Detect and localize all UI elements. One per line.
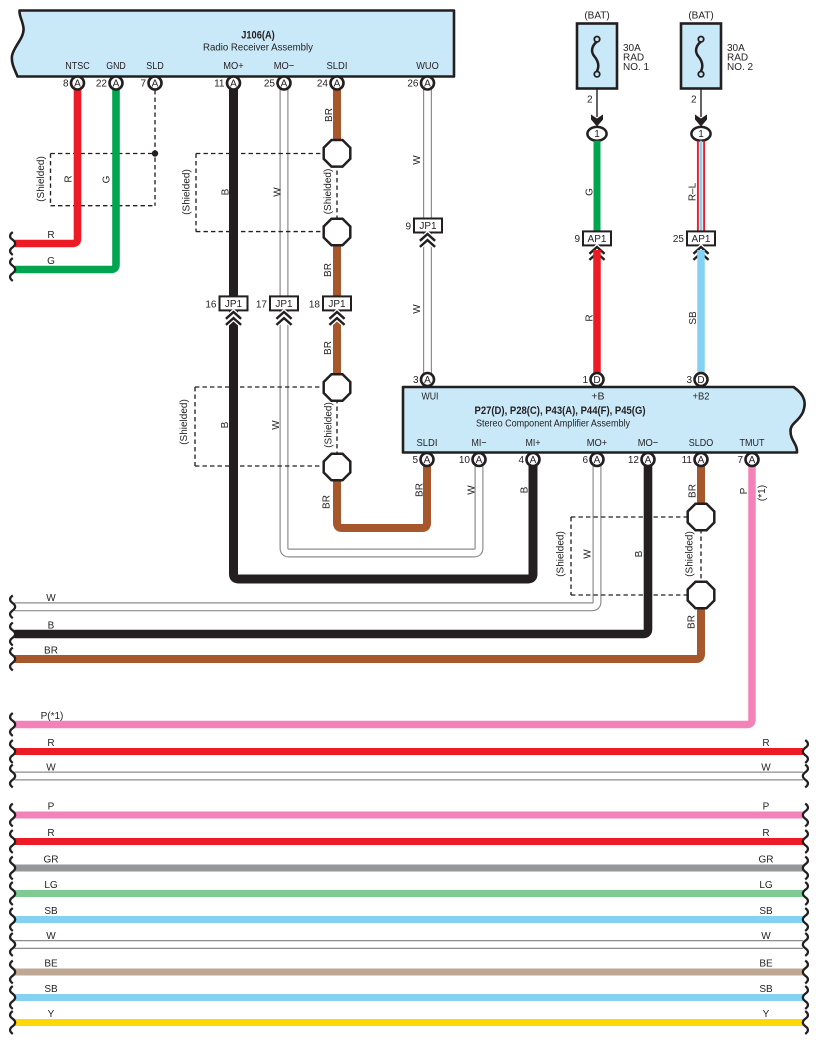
svg-text:SB: SB <box>759 906 773 917</box>
shield octagon SLDO 2 <box>688 582 715 609</box>
svg-text:B: B <box>634 550 645 557</box>
shield box around B/W wires (upper) <box>196 154 324 232</box>
svg-text:(BAT): (BAT) <box>584 10 609 21</box>
svg-text:(Shielded): (Shielded) <box>182 169 193 215</box>
shield octagon SLDI 4 <box>324 454 351 481</box>
wire B amp MO- to left edge <box>15 460 649 634</box>
wire GR row y=868 <box>15 865 804 872</box>
svg-text:JP1: JP1 <box>275 299 293 310</box>
svg-text:9: 9 <box>574 234 580 245</box>
wire G from radio GND <box>15 90 116 270</box>
svg-text:16: 16 <box>205 300 217 311</box>
svg-text:W: W <box>761 763 771 774</box>
svg-text:W: W <box>467 485 478 495</box>
shield dashed between octagons SLDI upper <box>336 163 338 220</box>
pin 7 A amp TMUT <box>746 453 759 466</box>
wire BR radio SLDI segment pin to octagon <box>333 90 341 142</box>
svg-text:NO. 2: NO. 2 <box>727 62 754 73</box>
svg-text:R: R <box>762 738 769 749</box>
svg-text:24: 24 <box>317 79 329 90</box>
svg-text:MO+: MO+ <box>587 437 608 449</box>
svg-text:AP1: AP1 <box>692 234 711 245</box>
svg-text:17: 17 <box>256 300 268 311</box>
wire SB row y=919.5 <box>15 916 804 923</box>
wire R AP1 to amp +B <box>593 250 601 374</box>
svg-text:(*1): (*1) <box>757 485 768 501</box>
svg-text:MO−: MO− <box>638 437 659 449</box>
svg-text:BR: BR <box>322 495 333 509</box>
wire R-L fuse to AP1 <box>697 141 699 231</box>
svg-text:W: W <box>761 931 771 942</box>
svg-text:MI−: MI− <box>472 437 487 449</box>
svg-text:(Shielded): (Shielded) <box>324 402 335 448</box>
svg-text:W: W <box>46 931 56 942</box>
svg-text:R: R <box>585 314 596 321</box>
svg-text:BR: BR <box>688 484 699 498</box>
svg-text:LG: LG <box>44 880 58 891</box>
svg-text:B: B <box>520 486 531 493</box>
shield box around B/W wires (lower) <box>195 387 324 466</box>
shield dashed between octagons SLDI lower <box>336 399 338 455</box>
svg-text:B: B <box>221 188 232 195</box>
svg-text:7: 7 <box>140 79 146 90</box>
svg-text:P: P <box>48 802 55 813</box>
svg-text:25: 25 <box>264 79 276 90</box>
svg-text:1: 1 <box>594 129 600 140</box>
svg-text:10: 10 <box>459 455 471 466</box>
svg-text:2: 2 <box>587 95 593 106</box>
svg-text:P: P <box>763 802 770 813</box>
svg-text:G: G <box>585 188 596 196</box>
svg-text:(Shielded): (Shielded) <box>179 399 190 445</box>
svg-text:R: R <box>762 828 769 839</box>
svg-text:Y: Y <box>763 1009 770 1020</box>
pin 22 A radio GND <box>110 77 123 90</box>
svg-text:J106(A): J106(A) <box>241 30 275 42</box>
wire Y row y=1022.5 <box>15 1019 804 1026</box>
svg-text:12: 12 <box>628 455 640 466</box>
pin 3 A amp WUI <box>421 373 434 386</box>
wire P row y=815 <box>15 812 804 819</box>
svg-text:W: W <box>412 304 423 314</box>
svg-text:+B: +B <box>591 391 604 403</box>
pin 8 A radio NTSC <box>71 77 84 90</box>
wire BR amp SLDO to octagon <box>697 460 705 505</box>
junction 16 JP1 <box>220 296 248 310</box>
svg-text:BE: BE <box>44 959 58 970</box>
svg-text:11: 11 <box>682 455 693 466</box>
svg-text:SLDI: SLDI <box>417 437 438 449</box>
svg-text:BR: BR <box>324 108 335 122</box>
svg-text:SB: SB <box>44 984 58 995</box>
svg-text:MI+: MI+ <box>526 437 541 449</box>
svg-text:W: W <box>46 763 56 774</box>
svg-text:LG: LG <box>759 880 773 891</box>
pin 7 A radio SLD <box>149 77 162 90</box>
svg-text:W: W <box>273 187 284 197</box>
svg-text:Stereo Component Amplifier Ass: Stereo Component Amplifier Assembly <box>476 418 631 430</box>
svg-text:4: 4 <box>518 455 524 466</box>
wire R row y=751.5 <box>15 748 804 755</box>
svg-text:W: W <box>46 593 56 604</box>
svg-text:(Shielded): (Shielded) <box>36 156 47 202</box>
svg-text:6: 6 <box>582 455 588 466</box>
wire R row y=841.5 <box>15 838 804 845</box>
svg-text:22: 22 <box>96 79 108 90</box>
wire W radio MO- to amp MI- <box>284 90 479 554</box>
pin 12 A amp MO- <box>642 453 655 466</box>
svg-text:SLDI: SLDI <box>327 60 348 72</box>
svg-text:R: R <box>47 738 54 749</box>
shield dashed drop from SLD pin <box>154 90 156 206</box>
svg-text:WUO: WUO <box>416 60 439 72</box>
svg-text:R: R <box>47 828 54 839</box>
junction dot on SLD shield <box>152 150 158 156</box>
svg-text:(BAT): (BAT) <box>688 10 713 21</box>
wire BR segment octagon to JP1 <box>333 244 341 297</box>
svg-text:R: R <box>47 230 54 241</box>
svg-text:AP1: AP1 <box>588 234 607 245</box>
shield octagon SLDO 1 <box>688 504 715 531</box>
svg-text:JP1: JP1 <box>225 299 243 310</box>
pin 6 A amp MO+ <box>591 453 604 466</box>
svg-text:SB: SB <box>44 906 58 917</box>
junction 9 JP1 <box>414 219 442 233</box>
wire B radio MO+ to amp MI+ <box>234 90 534 580</box>
svg-text:B: B <box>48 621 55 632</box>
svg-text:GND: GND <box>106 60 126 72</box>
svg-text:3: 3 <box>686 375 692 386</box>
svg-text:JP1: JP1 <box>419 221 437 232</box>
svg-text:P: P <box>739 487 750 494</box>
pin 24 A radio SLDI <box>331 77 344 90</box>
wire W horizontal row y=776 <box>15 772 804 781</box>
svg-text:G: G <box>102 175 113 183</box>
svg-text:11: 11 <box>214 79 225 90</box>
svg-text:W: W <box>583 549 594 559</box>
svg-text:3: 3 <box>413 375 419 386</box>
svg-text:9: 9 <box>405 222 411 233</box>
wire W radio WUO to amp WUI <box>423 90 432 376</box>
wire SB AP1 to amp +B2 <box>697 250 705 374</box>
svg-text:7: 7 <box>737 455 743 466</box>
svg-text:GR: GR <box>759 855 774 866</box>
svg-text:(Shielded): (Shielded) <box>685 531 696 577</box>
pin 4 A amp MI+ <box>527 453 540 466</box>
wire G fuse to AP1 <box>594 141 601 231</box>
pin 3 D amp +B2 <box>695 373 708 386</box>
svg-text:SB: SB <box>688 311 699 325</box>
svg-text:Y: Y <box>48 1009 55 1020</box>
svg-text:NTSC: NTSC <box>65 60 90 72</box>
svg-text:W: W <box>271 420 282 430</box>
svg-text:SLDO: SLDO <box>689 437 714 449</box>
svg-text:R–L: R–L <box>688 182 699 201</box>
svg-text:SLD: SLD <box>146 60 164 72</box>
svg-text:BE: BE <box>759 959 773 970</box>
right wire-break brackets <box>803 740 808 763</box>
arrow into connector 1 <box>695 115 707 127</box>
pin 10 A amp MI- <box>473 453 486 466</box>
shield box around W/B wires (right) <box>571 517 688 595</box>
svg-text:G: G <box>47 256 55 267</box>
svg-text:P27(D), P28(C), P43(A), P44(F): P27(D), P28(C), P43(A), P44(F), P45(G) <box>475 405 646 417</box>
svg-text:MO−: MO− <box>274 60 295 72</box>
svg-text:5: 5 <box>412 455 418 466</box>
svg-text:BR: BR <box>323 263 334 277</box>
svg-text:MO+: MO+ <box>223 60 244 72</box>
pin 5 A amp SLDI <box>421 453 434 466</box>
left wire-break brackets <box>10 232 15 255</box>
wire BR segment octagon to left edge <box>15 607 702 659</box>
wire BE row y=972 <box>15 969 804 976</box>
svg-text:25: 25 <box>673 234 685 245</box>
svg-text:JP1: JP1 <box>328 299 346 310</box>
arrow into connector 1 <box>591 115 603 127</box>
junction 17 JP1 <box>270 296 298 310</box>
svg-text:18: 18 <box>309 300 321 311</box>
junction 18 JP1 <box>323 296 351 310</box>
wire BR segment JP1 to octagon <box>333 309 341 375</box>
shield octagon SLDI 3 <box>324 374 351 401</box>
wire W horizontal row y=944.5 <box>15 940 804 949</box>
svg-text:TMUT: TMUT <box>740 437 765 449</box>
junction 9 AP1 <box>583 231 611 245</box>
pin 25 A radio MO- <box>278 77 291 90</box>
svg-text:WUI: WUI <box>422 391 439 403</box>
pin 11 A amp SLDO <box>695 453 708 466</box>
svg-text:+B2: +B2 <box>693 391 710 403</box>
shield box around R/G wires <box>51 154 156 206</box>
svg-text:8: 8 <box>63 79 69 90</box>
wire LG row y=893.5 <box>15 890 804 897</box>
junction 25 AP1 <box>687 231 715 245</box>
wire BR segment octagon to amp SLDI <box>337 460 427 528</box>
svg-text:BR: BR <box>44 646 58 657</box>
svg-text:GR: GR <box>44 855 59 866</box>
connector P27/P28/P43/P44/P45 Stereo Component Amplifier Assembly <box>403 387 805 453</box>
svg-text:(Shielded): (Shielded) <box>323 169 334 215</box>
svg-text:2: 2 <box>691 95 697 106</box>
svg-text:BR: BR <box>323 341 334 355</box>
svg-text:1: 1 <box>582 375 588 386</box>
pin 11 A radio MO+ <box>227 77 240 90</box>
shield octagon SLDI 1 <box>324 140 351 167</box>
wire P amp TMUT to left edge <box>15 460 753 725</box>
wire W amp MO+ to left edge <box>15 460 598 607</box>
svg-text:NO. 1: NO. 1 <box>623 62 650 73</box>
svg-text:BR: BR <box>687 615 698 629</box>
shield octagon SLDI 2 <box>324 219 351 246</box>
svg-text:(Shielded): (Shielded) <box>556 531 567 577</box>
pin 1 D amp +B <box>591 373 604 386</box>
svg-text:1: 1 <box>698 129 704 140</box>
svg-text:SB: SB <box>759 984 773 995</box>
svg-text:B: B <box>220 421 231 428</box>
svg-text:BR: BR <box>415 483 426 497</box>
svg-text:P(*1): P(*1) <box>41 711 64 722</box>
svg-text:Radio Receiver Assembly: Radio Receiver Assembly <box>203 42 314 54</box>
shield dashed between octagons SLDO <box>700 529 702 583</box>
wire SB row y=997.5 <box>15 994 804 1001</box>
wire R from radio NTSC <box>15 90 78 244</box>
svg-text:26: 26 <box>407 79 419 90</box>
pin 26 A radio WUO <box>421 77 434 90</box>
connector J106(A) Radio Receiver Assembly <box>12 11 454 77</box>
svg-text:W: W <box>412 155 423 165</box>
svg-text:R: R <box>64 175 75 182</box>
